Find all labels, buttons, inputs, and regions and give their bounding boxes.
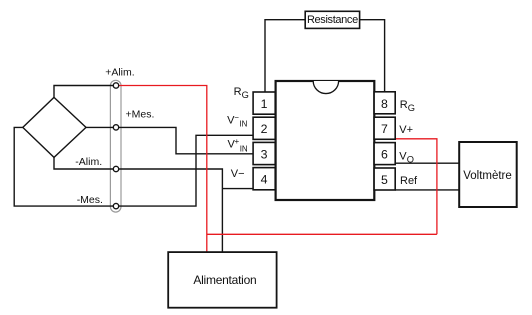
- svg-text:+Mes.: +Mes.: [126, 108, 155, 120]
- svg-text:+Alim.: +Alim.: [105, 67, 134, 79]
- svg-text:-Alim.: -Alim.: [75, 156, 102, 168]
- svg-text:V−: V−: [231, 168, 245, 180]
- svg-text:8: 8: [381, 97, 388, 111]
- svg-text:6: 6: [381, 147, 388, 161]
- svg-text:G: G: [408, 103, 415, 113]
- svg-text:Ref: Ref: [400, 175, 418, 187]
- svg-text:2: 2: [261, 122, 268, 136]
- svg-text:3: 3: [261, 147, 268, 161]
- svg-text:1: 1: [261, 97, 268, 111]
- svg-text:5: 5: [381, 173, 388, 187]
- svg-text:-Mes.: -Mes.: [77, 194, 103, 206]
- svg-text:4: 4: [261, 173, 268, 187]
- svg-text:Alimentation: Alimentation: [193, 273, 256, 287]
- svg-text:Resistance: Resistance: [307, 14, 358, 26]
- svg-text:G: G: [242, 90, 249, 100]
- svg-text:V+: V+: [399, 124, 413, 136]
- svg-text:O: O: [407, 155, 414, 165]
- svg-text:7: 7: [381, 122, 388, 136]
- svg-text:R: R: [400, 99, 408, 111]
- svg-text:IN: IN: [240, 145, 248, 154]
- svg-text:R: R: [234, 86, 242, 98]
- svg-text:IN: IN: [239, 120, 247, 129]
- svg-text:Voltmètre: Voltmètre: [463, 170, 512, 182]
